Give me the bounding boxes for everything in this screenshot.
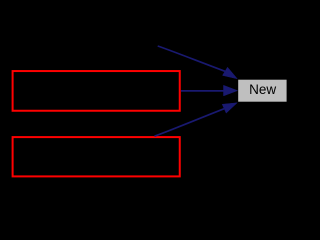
edge from box 1 to New bbox=[181, 90, 224, 92]
edge from top node to New bbox=[158, 46, 225, 71]
caller node box 2 (red, truncated) bbox=[13, 137, 180, 176]
arrowhead edge 1 bbox=[223, 67, 238, 79]
edge from box 2 to New bbox=[155, 109, 225, 137]
caller node box 1 (red, truncated) bbox=[13, 71, 180, 111]
arrowhead edge 3 bbox=[222, 103, 237, 113]
svg-text:New: New bbox=[249, 82, 276, 97]
node New bbox=[238, 80, 286, 102]
arrowhead edge 2 bbox=[224, 85, 238, 96]
